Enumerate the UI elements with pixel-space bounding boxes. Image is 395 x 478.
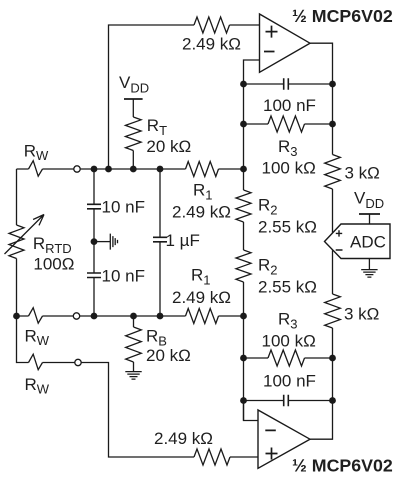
wire bottom rail right segment	[230, 456, 258, 458]
node junction dots 100nF top row	[240, 81, 247, 88]
node dots on top bus	[91, 166, 98, 173]
svg-text:VDD: VDD	[119, 73, 149, 96]
svg-text:100 kΩ: 100 kΩ	[262, 332, 316, 351]
node dots 100nF bottom row	[240, 397, 247, 404]
svg-text:20 kΩ: 20 kΩ	[146, 137, 191, 156]
resistor R3 (top feedback 100 kOhm)	[244, 116, 333, 132]
svg-text:2.49 kΩ: 2.49 kΩ	[172, 203, 231, 222]
svg-text:R3: R3	[278, 137, 298, 159]
svg-text:½ MCP6V02: ½ MCP6V02	[292, 456, 393, 476]
svg-text:3 kΩ: 3 kΩ	[345, 163, 380, 182]
terminal circle (top bus)	[74, 166, 80, 172]
svg-text:1 µF: 1 µF	[166, 231, 200, 250]
svg-text:RRTD: RRTD	[33, 234, 72, 256]
svg-text:RW: RW	[24, 142, 49, 164]
wire U1 output to right column	[310, 43, 333, 84]
op-amp U1 (top half MCP6V02)	[260, 14, 311, 72]
resistor 3 kOhm (bottom)	[325, 294, 341, 328]
capacitor 10 nF (upper) column	[87, 169, 101, 316]
wire right column upper (to ADC + input)	[332, 84, 334, 233]
ADC block	[325, 224, 391, 259]
resistor RW (bottom lead wire)	[29, 354, 43, 370]
svg-text:R1: R1	[191, 266, 211, 288]
resistor 2.49 kOhm (top, to U1 + input)	[194, 17, 230, 33]
svg-text:2.55 kΩ: 2.55 kΩ	[258, 278, 317, 297]
ground (ADC)	[361, 259, 377, 278]
svg-text:2.55 kΩ: 2.55 kΩ	[258, 218, 317, 237]
node dots on second bus	[13, 313, 20, 320]
svg-text:RT: RT	[147, 116, 167, 138]
capacitor 100 nF (top feedback)	[244, 78, 333, 89]
op-amp U2 (bottom half MCP6V02)	[258, 410, 310, 468]
second bus wire (bottom sensor node)	[17, 315, 244, 317]
third row wire (return lead)	[43, 363, 195, 458]
node dots R3 bottom row	[240, 355, 247, 362]
svg-text:100Ω: 100Ω	[33, 255, 74, 274]
resistor RT 20 kOhm	[126, 117, 142, 169]
svg-text:20 kΩ: 20 kΩ	[146, 346, 191, 365]
svg-text:2.49 kΩ: 2.49 kΩ	[154, 429, 213, 448]
node junction dots R3 top row	[240, 121, 247, 128]
resistor R1 (bottom 2.49 kOhm)	[186, 309, 219, 324]
svg-text:½ MCP6V02: ½ MCP6V02	[292, 6, 393, 26]
wire top rail right segment	[230, 24, 260, 26]
svg-text:RW: RW	[25, 327, 50, 349]
resistor R1 (top 2.49 kOhm)	[186, 162, 219, 177]
resistor 2.49 kOhm (bottom, to U2 + input)	[194, 449, 230, 465]
resistor R2 (lower 2.55 kOhm)	[236, 250, 251, 282]
ground (filter midpoint, rotated)	[94, 234, 118, 250]
power bar VDD (ADC)	[359, 213, 380, 215]
wire center column (U1 feedback node down to U2 inverting input)	[244, 84, 259, 421]
svg-text:R3: R3	[278, 310, 298, 332]
wire U1 inverting input feedback corner	[244, 60, 260, 84]
svg-text:R2: R2	[258, 256, 278, 278]
svg-text:RW: RW	[25, 375, 50, 397]
resistor RRTD 100 Ohm (variable)	[9, 225, 24, 259]
svg-text:10 nF: 10 nF	[102, 267, 145, 286]
capacitor 1 uF column	[153, 169, 167, 316]
power bar VDD (RT)	[124, 98, 143, 100]
svg-text:2.49 kΩ: 2.49 kΩ	[172, 288, 231, 307]
main bus wire (top sensor node)	[17, 168, 244, 170]
svg-text:VDD: VDD	[354, 189, 384, 212]
svg-text:100 nF: 100 nF	[263, 96, 316, 115]
svg-text:2.49 kΩ: 2.49 kΩ	[182, 35, 241, 54]
svg-text:R1: R1	[193, 181, 213, 203]
svg-text:R2: R2	[258, 196, 278, 218]
capacitor 100 nF (bottom feedback)	[244, 395, 333, 406]
resistor RW (middle lead wire)	[29, 308, 43, 324]
wire top rail and left vertical	[109, 25, 195, 169]
svg-text:10 nF: 10 nF	[102, 198, 145, 217]
resistor 3 kOhm (top)	[325, 155, 341, 190]
resistor RB 20 kOhm	[126, 316, 142, 362]
terminal circle (third row)	[75, 359, 81, 365]
node dot mid filter	[91, 238, 98, 245]
svg-text:100 kΩ: 100 kΩ	[262, 159, 316, 178]
terminal circle (second bus)	[73, 313, 79, 319]
wire left column (sensor loop)	[17, 169, 29, 363]
resistor R2 (upper 2.55 kOhm)	[236, 190, 251, 222]
svg-text:ADC: ADC	[350, 232, 386, 251]
wire right column lower (from ADC - input)	[310, 250, 333, 439]
wire U2 inverting input corner	[243, 401, 245, 421]
resistor RW (top lead wire)	[29, 161, 43, 177]
svg-text:100 nF: 100 nF	[263, 372, 316, 391]
svg-text:3 kΩ: 3 kΩ	[344, 305, 379, 324]
arrow (variable RTD)	[5, 215, 45, 255]
resistor R3 (bottom feedback 100 kOhm)	[244, 350, 333, 366]
ground (RB)	[125, 362, 141, 379]
